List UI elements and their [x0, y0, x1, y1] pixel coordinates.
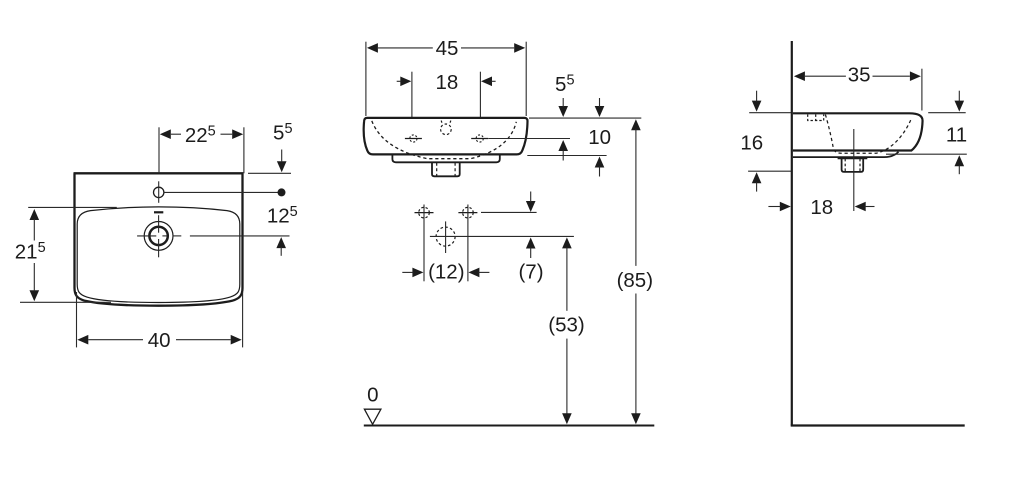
svg-text:225: 225 [185, 123, 216, 147]
dim 21.5: bottom tick line [20, 301, 111, 303]
front view basin body outline [364, 118, 528, 154]
dim 22.5: right arrow [232, 129, 243, 139]
dim (53): up arrow at siphon line [562, 237, 572, 248]
dim 10 (front): up arrow [595, 157, 605, 168]
dim 22.5: line segments [171, 133, 181, 135]
dim 40: left arrow [77, 335, 88, 345]
svg-text:10: 10 [588, 126, 611, 149]
drain crosshair vertical [158, 215, 160, 233]
tap hole 2 crosshair [471, 138, 488, 140]
dim 35: line segments [805, 75, 846, 77]
svg-text:(7): (7) [518, 260, 543, 283]
svg-text:125: 125 [267, 204, 298, 228]
tap hole leader line [488, 138, 570, 140]
svg-text:45: 45 [436, 37, 459, 60]
dim 22.5: left arrow [160, 129, 171, 139]
front view trap dashed interior lines [436, 163, 438, 176]
dim 45: line segments [378, 47, 433, 49]
dim 11: down arrow [955, 101, 965, 112]
floor line [791, 424, 965, 426]
dim 16: top tick line [749, 112, 791, 114]
dim 21.5: up arrow [30, 209, 40, 220]
top view outer rim outline [74, 173, 244, 305]
drain leader line right [190, 235, 290, 237]
tap hole 1 crosshair [405, 138, 422, 140]
svg-text:0: 0 [367, 384, 378, 407]
dim 11: top tick line [928, 112, 966, 114]
dim 18 (front): tap centerline 2 [479, 72, 481, 145]
side view apron line [793, 152, 899, 157]
faucet leader line to dot [164, 191, 282, 193]
apron bottom extension line [527, 155, 606, 157]
fixing hole 2 crosshair [458, 212, 477, 214]
dim (53): line segments [566, 247, 568, 310]
svg-text:16: 16 [740, 132, 763, 155]
wall distance dot [278, 188, 286, 196]
svg-text:(12): (12) [428, 261, 464, 284]
dim (53): down arrow at ground [562, 413, 572, 424]
dim 16: down arrow [752, 101, 762, 112]
dim 18 (side): right-pointing arrow at wall [780, 202, 791, 212]
dim 35: left arrow [794, 71, 805, 81]
front view inner bowl dashed arc [372, 121, 517, 159]
svg-text:11: 11 [946, 124, 967, 147]
dim (85): up arrow at rim line [631, 119, 641, 130]
dim 45: right extension line [525, 42, 527, 116]
dim 5.5 (top view): tick line [248, 172, 291, 174]
svg-text:55: 55 [555, 72, 574, 96]
svg-text:40: 40 [148, 329, 171, 352]
dim 5.5 (front): down arrow [558, 106, 568, 117]
dim 11: bottom tick line [886, 153, 967, 155]
front view overflow dashed circle [441, 124, 452, 135]
drain crosshair horizontal [137, 235, 156, 237]
side view fixing dashed rectangle [808, 115, 824, 121]
side view trap dashed interior [844, 159, 846, 172]
dim 18 (front): left arrow (pointing right) [400, 77, 411, 87]
dim 40: line segments [88, 339, 143, 341]
faucet hole vertical centerline [158, 181, 160, 203]
side view trap flange [838, 157, 868, 159]
front view trap outline [432, 163, 460, 177]
dim 18 (front): tap centerline 1 [411, 72, 413, 145]
dim 45: left extension line [365, 42, 367, 116]
drain inner circle [149, 227, 167, 245]
siphon level line [430, 235, 574, 237]
dim 12.5: up arrow [276, 237, 286, 248]
svg-text:(53): (53) [548, 314, 584, 337]
front view overflow dashed slot [441, 121, 442, 125]
side view drain centerline [853, 129, 855, 211]
overflow dash mark [154, 211, 163, 213]
svg-text:55: 55 [273, 121, 292, 145]
dim 16: up arrow [752, 172, 762, 183]
side view basin outline [793, 113, 923, 150]
dim (7): up arrow [526, 238, 536, 249]
dim (85): line segments [635, 129, 637, 266]
dim 11: up arrow [955, 155, 965, 166]
dim 45: left arrow [367, 43, 378, 53]
fixing level line [481, 211, 537, 213]
top view inner basin outline [77, 207, 240, 303]
fixing hole centerline 2 (12 ext) [467, 205, 469, 282]
datum triangle [364, 409, 381, 424]
svg-text:35: 35 [848, 64, 871, 87]
dim 21.5: top leader line [28, 206, 117, 208]
front view apron outline [392, 155, 499, 163]
dim (12): right arrow (pointing left) [468, 268, 479, 278]
dim 5.5 (top view): down arrow [277, 161, 287, 172]
dim (7): down arrow [526, 201, 536, 212]
svg-text:18: 18 [810, 196, 833, 219]
siphon vertical centerline [445, 221, 447, 253]
dim 22.5: left extension line (faucet axis) [158, 127, 160, 173]
ground line [364, 425, 655, 427]
svg-text:18: 18 [435, 71, 458, 94]
siphon dashed circle [436, 227, 455, 246]
side view inner bowl dashed profile [825, 115, 911, 154]
side view trap body [842, 158, 864, 172]
fixing hole centerline 1 (12 ext) [423, 205, 425, 282]
dim 40: right extension line [242, 292, 244, 347]
dim 18 (side): left-pointing arrow at drain axis [855, 202, 866, 212]
dim 22.5: right extension line [243, 127, 245, 173]
svg-text:215: 215 [15, 240, 46, 264]
dim 40: right arrow [231, 335, 242, 345]
dim 18 (front): right arrow (pointing left) [481, 77, 492, 87]
dim 5.5 (front): up arrow [558, 140, 568, 151]
dim 40: left extension line [76, 292, 78, 347]
dim 16: bottom tick line [748, 170, 791, 172]
drain outer circle [144, 222, 173, 251]
dim 35: right extension line [921, 69, 923, 111]
svg-text:(85): (85) [617, 269, 653, 292]
dim 45: right arrow [514, 43, 525, 53]
dim 35: right arrow [910, 71, 921, 81]
faucet hole [154, 187, 164, 197]
fixing hole 1 crosshair [415, 212, 434, 214]
dim 21.5: down arrow [30, 290, 40, 301]
wall line [791, 41, 793, 426]
dim (12): left arrow (pointing right) [412, 268, 423, 278]
dim 10 (front): down arrow [595, 106, 605, 117]
dim (85): down arrow at ground [631, 413, 641, 424]
dim 21.5: line segments [33, 219, 35, 241]
rim top extension line [529, 117, 641, 119]
